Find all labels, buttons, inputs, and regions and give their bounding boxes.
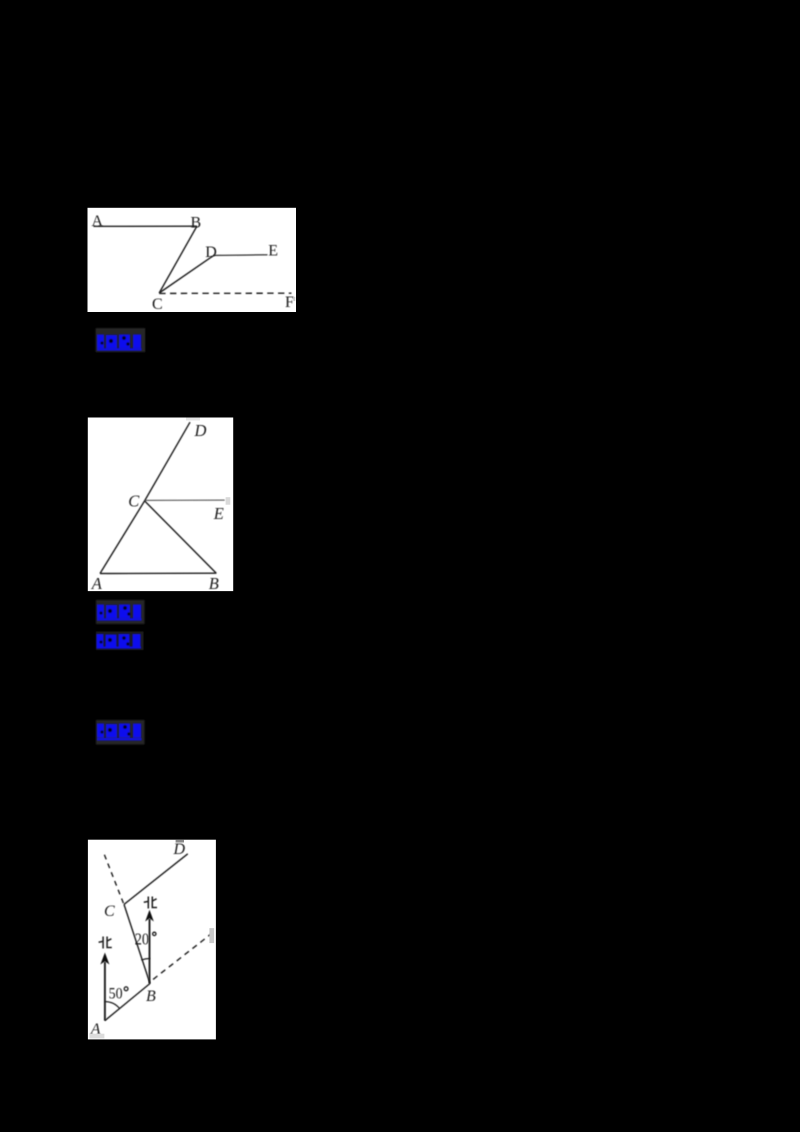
north label at B (CJK bei)	[144, 897, 157, 909]
svg-text:B: B	[191, 215, 202, 232]
hyperlink blob 4	[96, 720, 145, 745]
wire line C-D (fig3)	[124, 854, 188, 905]
svg-text:50: 50	[109, 986, 123, 1003]
figure 2 drawing	[100, 422, 225, 573]
svg-text:E: E	[268, 243, 278, 260]
wire dashed line C-F	[159, 292, 291, 294]
wire line D-E	[213, 254, 268, 257]
wire line A-B (fig2)	[100, 572, 216, 574]
svg-text:20: 20	[135, 929, 149, 948]
svg-text:D: D	[173, 841, 186, 858]
wire line C-B (fig2)	[145, 501, 217, 573]
svg-text:A: A	[91, 574, 103, 593]
artifact gray bar above D	[176, 840, 184, 843]
wire dashed extension beyond B	[153, 934, 211, 980]
svg-text:E: E	[213, 504, 224, 523]
wire line B-C	[159, 226, 197, 293]
svg-text:C: C	[128, 492, 140, 511]
artifact gray rect below A	[89, 1034, 104, 1039]
svg-text:F: F	[285, 294, 294, 311]
artifact tick right of F	[293, 297, 295, 301]
artifact tick at end of CE	[226, 497, 231, 505]
figure 1 white panel	[88, 208, 297, 312]
north arrow at B	[145, 910, 154, 984]
angle arc at A (50 deg)	[105, 1002, 120, 1009]
wire line A-B	[94, 225, 198, 227]
figure 3 white panel	[88, 840, 216, 1040]
artifact smudge above D (fig2)	[186, 418, 200, 421]
hyperlink blob 2	[96, 600, 145, 624]
north arrow at A	[100, 953, 109, 1021]
hyperlink blob 1	[96, 328, 146, 352]
angle arc at B (20 deg)	[141, 959, 150, 961]
wire line C-B (fig3)	[124, 904, 150, 983]
north label at A (CJK bei)	[99, 937, 112, 949]
svg-text:A: A	[92, 213, 104, 230]
figure 3 drawing	[104, 854, 211, 1021]
svg-text:D: D	[205, 244, 217, 261]
wire dashed extension beyond C	[104, 855, 123, 904]
figure 2 white panel	[88, 418, 233, 592]
svg-text:C: C	[104, 903, 115, 920]
wire line C-E (fig2)	[145, 499, 225, 501]
svg-text:C: C	[152, 296, 163, 313]
figure 1 drawing	[94, 226, 292, 293]
wire line A-B (fig3)	[105, 984, 150, 1021]
hyperlink blob 3	[96, 632, 144, 651]
svg-text:B: B	[209, 574, 219, 593]
svg-text:B: B	[146, 988, 156, 1005]
wire line A-C-D	[100, 422, 190, 573]
artifact gray rect right edge	[209, 928, 214, 943]
wire line C-D	[159, 256, 212, 293]
svg-text:D: D	[194, 421, 207, 440]
